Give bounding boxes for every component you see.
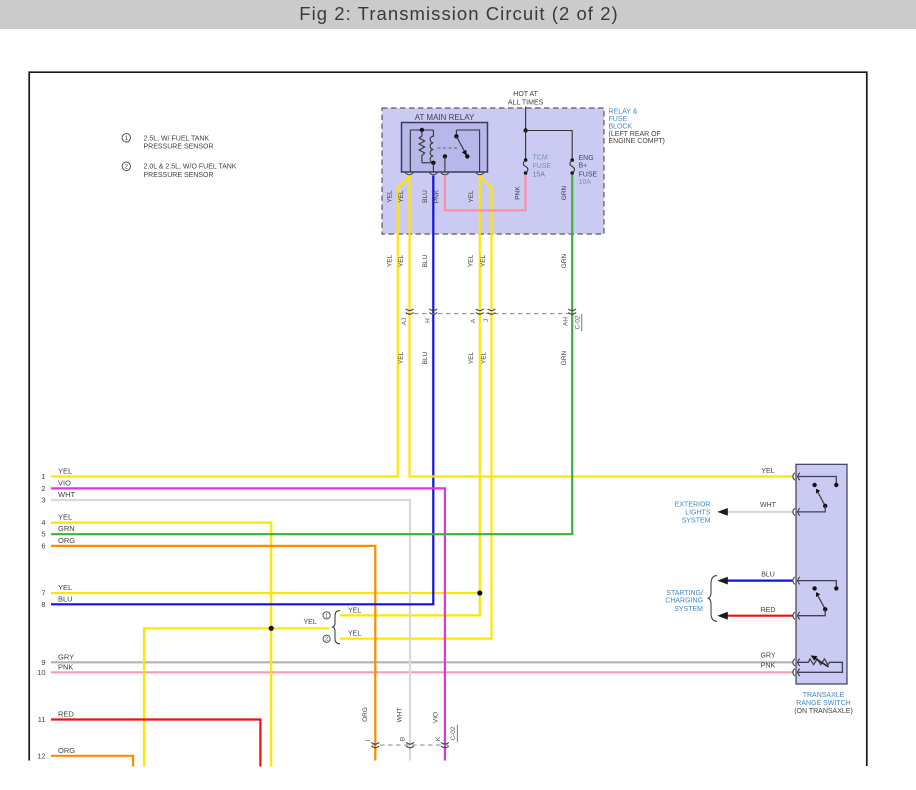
svg-text:ENG: ENG xyxy=(579,155,594,162)
node at supply split xyxy=(523,128,527,132)
switch cup BLU xyxy=(793,577,800,584)
svg-text:YEL: YEL xyxy=(398,190,405,203)
svg-text:A: A xyxy=(470,318,477,323)
svg-text:YEL: YEL xyxy=(480,351,487,364)
svg-text:H: H xyxy=(425,318,432,323)
svg-text:PNK: PNK xyxy=(761,663,776,670)
switch cup RED xyxy=(793,612,800,619)
pin cup A xyxy=(405,173,413,175)
svg-text:C-02: C-02 xyxy=(575,315,582,329)
junction dot coil top xyxy=(420,128,424,132)
pin cup E xyxy=(429,173,437,175)
svg-text:I: I xyxy=(365,739,372,741)
wire yellow branch1 xyxy=(340,593,480,615)
fuse TCM 15A xyxy=(524,158,528,162)
svg-text:FUSE: FUSE xyxy=(579,171,598,178)
wire blue line8 up to relay pin E xyxy=(51,176,433,605)
svg-text:J: J xyxy=(483,319,490,322)
wire branch to ENG fuse xyxy=(526,131,573,159)
svg-text:11: 11 xyxy=(38,715,46,724)
actuator dashed link xyxy=(438,147,460,149)
svg-text:6: 6 xyxy=(41,541,45,550)
svg-text:8: 8 xyxy=(41,600,45,609)
wire violet line2 down to pin K xyxy=(51,488,445,760)
svg-text:YEL: YEL xyxy=(304,619,317,626)
svg-text:9: 9 xyxy=(41,658,45,667)
svg-text:B+: B+ xyxy=(579,162,588,169)
relay fixed contact dot xyxy=(443,154,447,158)
pin cup D xyxy=(476,173,484,175)
legend note 2 circle xyxy=(122,162,130,170)
junction dot yellow branch xyxy=(269,626,274,631)
transaxle range switch box xyxy=(796,464,847,684)
left side numbered wire labels xyxy=(37,467,75,761)
svg-text:B: B xyxy=(400,737,407,741)
svg-text:TRANSAXLE: TRANSAXLE xyxy=(803,692,845,699)
svg-text:BLOCK: BLOCK xyxy=(609,123,633,130)
svg-text:LIGHTS: LIGHTS xyxy=(685,509,711,516)
relay switch pivot stub xyxy=(455,130,457,136)
svg-text:RED: RED xyxy=(58,710,74,719)
svg-text:(ON TRANSAXLE): (ON TRANSAXLE) xyxy=(794,708,853,715)
relay switch top rail xyxy=(456,130,479,172)
svg-text:SYSTEM: SYSTEM xyxy=(674,606,703,613)
wire red to charging system xyxy=(728,615,793,617)
svg-text:3: 3 xyxy=(41,496,45,505)
svg-text:WHT: WHT xyxy=(760,502,777,509)
svg-text:GRN: GRN xyxy=(561,350,568,365)
svg-text:PRESSURE SENSOR: PRESSURE SENSOR xyxy=(144,144,214,151)
svg-text:2: 2 xyxy=(325,637,328,643)
svg-text:RED: RED xyxy=(761,607,776,614)
svg-text:5: 5 xyxy=(41,530,45,539)
wire blue to starting system xyxy=(728,579,793,581)
YEL split circle 2 xyxy=(323,635,330,642)
svg-text:TCM: TCM xyxy=(533,155,548,162)
switch cup WHT xyxy=(793,508,800,515)
lower connector chevrons xyxy=(371,742,448,747)
arrow to starting system blue xyxy=(717,577,728,585)
svg-text:FUSE: FUSE xyxy=(533,163,552,170)
relay & fuse block (dashed box) xyxy=(382,108,604,234)
arrow to charging system red xyxy=(717,612,728,620)
connector chevrons AJ xyxy=(406,309,576,314)
svg-text:YEL: YEL xyxy=(480,254,487,267)
svg-text:PNK: PNK xyxy=(515,186,522,200)
svg-text:C-02: C-02 xyxy=(450,726,457,740)
wire pink line10 xyxy=(51,671,793,673)
svg-text:K: K xyxy=(435,736,442,741)
svg-text:AH: AH xyxy=(563,317,570,326)
svg-text:RANGE SWITCH: RANGE SWITCH xyxy=(796,700,850,707)
starting/charging brace xyxy=(708,576,718,622)
connector C-02 upper dashed line xyxy=(406,313,573,315)
switch cup YEL xyxy=(793,473,800,480)
svg-text:10: 10 xyxy=(37,668,45,677)
svg-text:YEL: YEL xyxy=(761,468,774,475)
svg-text:EXTERIOR: EXTERIOR xyxy=(675,502,711,509)
wire yellow pin D down to junction xyxy=(479,176,481,594)
svg-text:YEL: YEL xyxy=(387,254,394,267)
svg-text:BLU: BLU xyxy=(761,572,775,579)
wire yellow pin D fan right down branch2 xyxy=(340,176,492,639)
wire pink pin C to TCM fuse xyxy=(445,175,526,211)
wire white line3 down to pin B xyxy=(51,500,410,761)
svg-text:15A: 15A xyxy=(533,171,546,178)
svg-text:ENGINE COMPT): ENGINE COMPT) xyxy=(609,138,665,145)
relay switch blade end dot xyxy=(465,154,469,158)
wire yellow single branch with corner xyxy=(144,628,330,766)
svg-text:YEL: YEL xyxy=(468,190,475,203)
wire down to TCM fuse xyxy=(525,131,527,159)
YEL split circle 1 xyxy=(323,612,330,619)
svg-text:12: 12 xyxy=(37,751,45,760)
svg-text:CHARGING: CHARGING xyxy=(665,598,703,605)
resistor bottom rail xyxy=(422,162,434,164)
arrow to exterior lights xyxy=(717,508,728,516)
svg-text:2: 2 xyxy=(41,484,45,493)
relay coil top rail xyxy=(410,129,433,131)
svg-text:AJ: AJ xyxy=(401,318,408,326)
svg-text:ORG: ORG xyxy=(362,707,369,722)
YEL split brace xyxy=(332,611,340,644)
relay left vertical to pin A xyxy=(409,130,411,172)
switch resistor between GRY and PNK xyxy=(797,659,842,672)
svg-text:BLU: BLU xyxy=(422,190,429,203)
switch cup GRY xyxy=(793,659,800,666)
legend note 1 circle xyxy=(122,134,130,142)
svg-text:2.0L & 2.5L, W/O FUEL TANK: 2.0L & 2.5L, W/O FUEL TANK xyxy=(144,164,237,171)
svg-text:YEL: YEL xyxy=(468,351,475,364)
wire yellow line4 down with junction xyxy=(51,523,271,767)
svg-text:10A: 10A xyxy=(579,179,592,186)
svg-text:BLU: BLU xyxy=(422,254,429,267)
title bar xyxy=(0,0,916,29)
svg-text:PRESSURE SENSOR: PRESSURE SENSOR xyxy=(144,172,214,179)
svg-text:1: 1 xyxy=(325,613,328,619)
switch1 internal wiring xyxy=(797,477,836,484)
wire yellow line1 + up to relay pin A xyxy=(51,176,409,476)
connector C-02 lower dashed line xyxy=(372,744,448,746)
variable resistor arrow xyxy=(815,658,829,667)
svg-text:AT MAIN RELAY: AT MAIN RELAY xyxy=(415,113,475,122)
svg-text:(LEFT REAR OF: (LEFT REAR OF xyxy=(609,131,661,138)
wire gray line9 xyxy=(51,661,793,663)
svg-text:YEL: YEL xyxy=(398,254,405,267)
wire green ENG fuse down to line5 xyxy=(51,175,572,534)
svg-text:ORG: ORG xyxy=(58,746,75,755)
svg-text:SYSTEM: SYSTEM xyxy=(682,517,711,524)
wire yellow pin A straight down then right to switch xyxy=(410,176,793,477)
svg-text:GRN: GRN xyxy=(561,253,568,268)
svg-text:YEL: YEL xyxy=(387,190,394,203)
svg-text:GRY: GRY xyxy=(58,652,74,661)
junction dot line7 xyxy=(477,590,482,595)
svg-text:VIO: VIO xyxy=(58,478,71,487)
svg-text:1: 1 xyxy=(41,472,45,481)
svg-text:ALL TIMES: ALL TIMES xyxy=(508,99,544,106)
svg-text:HOT AT: HOT AT xyxy=(513,91,538,98)
relay switch blade xyxy=(456,136,465,154)
svg-text:FUSE: FUSE xyxy=(609,116,628,123)
wire yellow line7 xyxy=(51,592,480,594)
svg-text:PNK: PNK xyxy=(434,189,441,203)
pin cup C xyxy=(441,173,449,175)
svg-text:2.5L, W/ FUEL TANK: 2.5L, W/ FUEL TANK xyxy=(144,135,210,142)
svg-text:YEL: YEL xyxy=(58,583,72,592)
svg-text:BLU: BLU xyxy=(58,594,73,603)
svg-text:GRY: GRY xyxy=(760,653,775,660)
svg-text:YEL: YEL xyxy=(58,467,72,476)
svg-text:YEL: YEL xyxy=(468,254,475,267)
relay coil inductor xyxy=(430,130,433,163)
switch cup PNK xyxy=(793,669,800,676)
wire red line11 xyxy=(51,720,260,767)
svg-text:ORG: ORG xyxy=(58,536,75,545)
svg-text:BLU: BLU xyxy=(422,351,429,364)
resistor in relay xyxy=(419,130,425,163)
coil bottom to pin E xyxy=(432,163,434,172)
fuse ENG B+ 10A xyxy=(570,158,574,162)
svg-text:Fig 2: Transmission Circuit (2: Fig 2: Transmission Circuit (2 of 2) xyxy=(299,3,619,24)
svg-text:WHT: WHT xyxy=(397,708,404,723)
svg-text:GRN: GRN xyxy=(561,185,568,200)
switch2 internal wiring xyxy=(797,581,836,587)
svg-text:STARTING/: STARTING/ xyxy=(666,590,703,597)
svg-text:4: 4 xyxy=(41,518,45,527)
relay box xyxy=(402,123,488,173)
svg-text:YEL: YEL xyxy=(398,351,405,364)
svg-text:RELAY &: RELAY & xyxy=(609,109,638,116)
svg-text:VIO: VIO xyxy=(433,712,440,723)
svg-text:GRN: GRN xyxy=(58,524,75,533)
wire orange line12 xyxy=(51,756,133,767)
wire white to exterior lights xyxy=(728,511,793,513)
relay switch pivot dot xyxy=(454,134,458,138)
relay contact to pin C xyxy=(444,156,446,171)
supply wire from HOT AT xyxy=(525,107,527,131)
svg-text:YEL: YEL xyxy=(348,631,361,638)
svg-text:7: 7 xyxy=(41,589,45,598)
junction dot coil bottom xyxy=(431,161,435,165)
wire orange line6 down to pin I xyxy=(51,546,375,761)
svg-text:WHT: WHT xyxy=(58,490,75,499)
svg-text:YEL: YEL xyxy=(58,513,72,522)
svg-text:YEL: YEL xyxy=(348,607,361,614)
svg-text:PNK: PNK xyxy=(58,662,73,671)
